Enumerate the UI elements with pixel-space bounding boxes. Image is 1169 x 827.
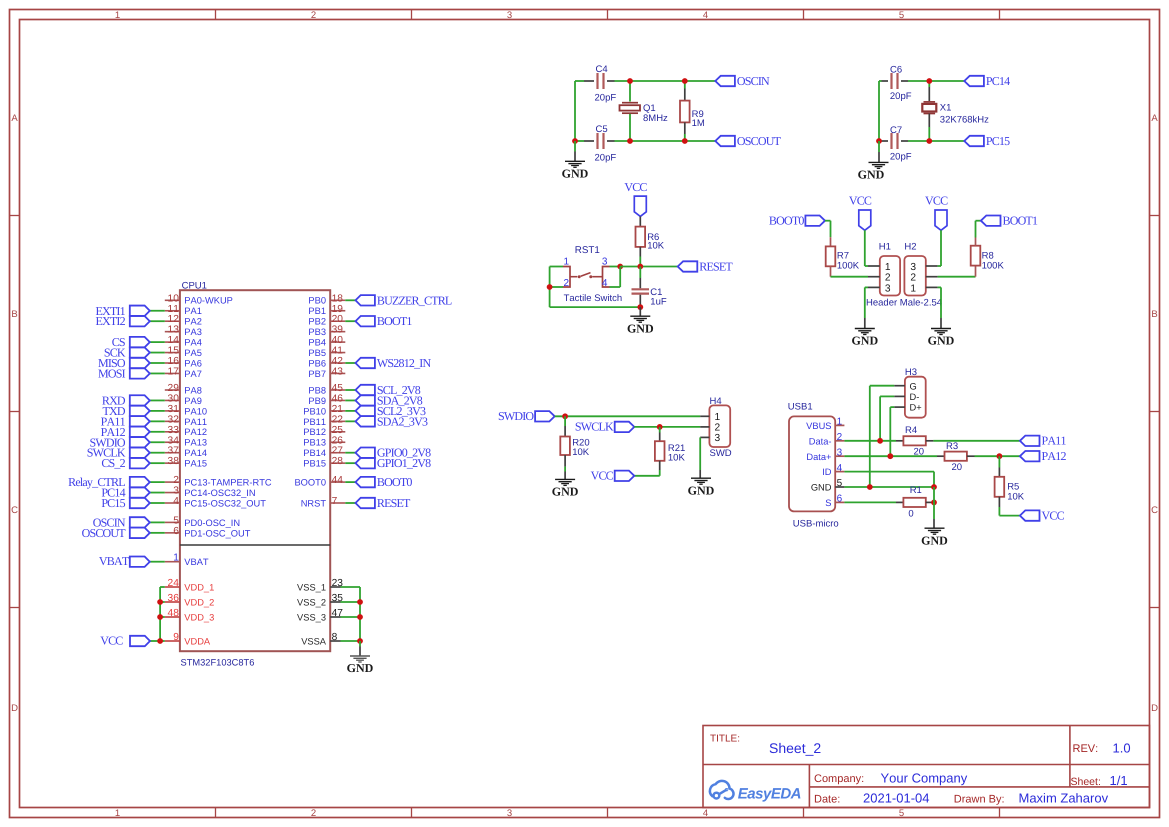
svg-text:GPIO1_2V8: GPIO1_2V8 [377,456,431,470]
resistor R4 [903,436,925,445]
svg-text:4: 4 [703,808,708,819]
pin 8 VSSA [330,640,340,642]
pin 13 PA3 [165,331,180,333]
svg-text:GND: GND [688,483,715,497]
pin lead C1 top [639,278,641,288]
net flag BOOT1 [356,316,375,326]
svg-text:20pF: 20pF [595,93,617,104]
pin 42 PB6 [330,362,345,364]
svg-text:BOOT0: BOOT0 [377,475,412,489]
svg-text:GND: GND [347,661,374,675]
svg-text:12: 12 [168,314,180,325]
svg-text:20pF: 20pF [595,153,617,164]
svg-text:PC15: PC15 [101,496,125,510]
pin 14 PA4 [165,341,180,343]
wire pin2 [550,286,563,288]
svg-text:PA2: PA2 [184,317,202,327]
junction [157,614,163,620]
pin lead R21 top [659,433,661,442]
wire [150,462,165,464]
svg-text:10: 10 [168,293,180,304]
wire [345,389,355,391]
svg-text:VBAT: VBAT [184,557,209,567]
wire bottom [550,306,641,308]
net flag WS2812_IN [356,358,375,368]
wire [345,462,355,464]
svg-text:PC14-OSC32_IN: PC14-OSC32_IN [184,488,255,498]
svg-text:15: 15 [168,346,180,357]
net flag SWCLK [130,448,150,458]
net flag RXD [130,395,150,405]
wire down to GND [933,487,935,519]
pin lead C7 right [901,140,908,142]
switch left bracket [563,267,570,288]
crystal X1 [924,101,936,103]
wire [575,80,584,82]
svg-text:2: 2 [885,273,891,284]
ground stem [940,318,942,328]
svg-text:C4: C4 [596,64,608,75]
pin 18 PB0 [330,299,345,301]
wire to GND [878,141,880,152]
wire R21 to VCC [659,470,661,476]
svg-text:CS_2: CS_2 [101,456,125,470]
svg-text:3: 3 [507,10,512,21]
wire [830,221,832,238]
svg-text:44: 44 [332,475,344,486]
switch contact right [592,276,602,278]
svg-text:OSCOUT: OSCOUT [82,526,127,540]
pin 33 PA12 [165,431,180,433]
pin 5 PD0-OSC_IN [165,521,180,523]
pin lead C6 right [901,80,908,82]
svg-text:R3: R3 [946,441,958,452]
svg-text:2: 2 [910,273,916,284]
net flag PA12 [130,427,150,437]
svg-text:Sheet_2: Sheet_2 [769,740,821,756]
net flag CS [130,337,150,347]
svg-text:GND: GND [627,321,654,335]
net flag SDA_2V8 [356,395,375,405]
svg-text:NRST: NRST [301,498,327,508]
svg-text:VCC: VCC [624,180,647,194]
ground stem [864,318,866,328]
svg-text:BOOT0: BOOT0 [294,478,326,488]
H4 pin1 lead [700,415,709,417]
svg-text:Maxim Zaharov: Maxim Zaharov [1019,791,1109,806]
H2 pin2 lead [926,276,938,278]
pin 16 PA6 [165,362,180,364]
svg-text:26: 26 [332,435,344,446]
ground stem [359,647,361,656]
svg-text:39: 39 [332,325,344,336]
svg-text:5: 5 [899,808,904,819]
net flag VBAT [130,557,150,567]
USB pin lead [835,501,844,503]
svg-text:1: 1 [910,283,916,294]
junction [562,413,568,419]
svg-text:VSS_2: VSS_2 [297,597,326,607]
pin 48 VDD_3 [165,616,180,618]
svg-text:11: 11 [168,304,180,315]
wire [341,640,361,642]
svg-text:41: 41 [332,346,344,357]
junction [887,453,893,459]
wire [615,140,716,142]
net flag Relay_CTRL [130,477,150,487]
H2 pin3 lead [926,265,938,267]
svg-text:30: 30 [168,393,180,404]
svg-text:PB13: PB13 [303,438,326,448]
svg-text:Drawn By:: Drawn By: [954,793,1005,805]
wire [150,452,165,454]
H1 pin3 lead [868,286,880,288]
wire down to GND [864,287,866,318]
ground stem [639,307,641,316]
pin lead R3 left [937,455,945,457]
pin lead C5 left [584,140,594,142]
svg-text:1: 1 [715,412,721,423]
wire ID down [933,472,935,487]
wire H2 pin2 to R8 [938,276,976,278]
svg-text:G: G [910,381,917,391]
svg-text:1uF: 1uF [650,297,667,308]
svg-text:VSS_1: VSS_1 [297,582,326,592]
wire [150,561,165,563]
svg-text:PA14: PA14 [184,448,207,458]
svg-text:PB12: PB12 [303,427,326,437]
wire down to GND [940,287,942,318]
wire SWCLK to H4 pin2 [634,426,700,428]
svg-text:A: A [1151,113,1158,124]
pin 23 VSS_1 [330,586,340,588]
power flag VCC [935,210,947,230]
ground stem [933,519,935,528]
wire [159,587,161,641]
resistor R5 [995,477,1005,497]
wire node to C1 [639,267,641,279]
pin lead R7 top [830,237,832,246]
junction [572,138,578,144]
wire R4 to PA11 [933,440,1020,442]
svg-text:2: 2 [564,278,570,289]
svg-text:TITLE:: TITLE: [710,734,740,745]
pin lead R20 bottom [564,455,566,467]
svg-text:GND: GND [921,533,948,547]
switch right bracket [603,267,610,288]
svg-text:19: 19 [332,304,344,315]
svg-text:MOSI: MOSI [98,366,126,380]
net flag SDA2_3V3 [356,416,375,426]
pin lead C5 right [607,140,615,142]
svg-text:PB14: PB14 [303,448,326,458]
wire ID [844,471,934,473]
ground stem [574,152,576,162]
junction [637,304,643,310]
wire R5 down [998,507,1000,516]
capacitor plates [890,133,892,149]
net flag EXTI2 [130,316,150,326]
resistor R1 [903,498,925,507]
wire [150,372,165,374]
wire [908,140,964,142]
svg-text:D: D [1151,703,1158,714]
wire [999,515,1020,517]
wire H3 D- [880,395,894,397]
svg-text:3: 3 [507,808,512,819]
resistor R9 [680,101,690,123]
pin 2 PC13-TAMPER-RTC [165,481,180,483]
pin 6 PD1-OSC_OUT [165,532,180,534]
svg-text:D+: D+ [910,403,922,413]
svg-text:3: 3 [885,283,891,294]
wire [345,481,355,483]
resistor R20 [560,437,570,456]
svg-text:PD1-OSC_OUT: PD1-OSC_OUT [184,528,250,538]
junction [157,638,163,644]
wire R3 to PA12 [975,455,1020,457]
svg-text:R4: R4 [905,425,917,436]
svg-text:GND: GND [928,334,955,348]
pin 44 BOOT0 [330,481,345,483]
pin lead C7 left [882,140,889,142]
wire SWDIO to H4 pin1 [555,415,701,417]
svg-text:42: 42 [332,356,344,367]
pin 34 PA13 [165,441,180,443]
wire from Q1 [629,114,631,141]
junction [617,264,623,270]
wire [160,616,165,618]
IC CPU1 body [180,290,330,651]
net flag PA11 [130,416,150,426]
net flag OSCOUT [130,528,150,538]
wire [341,601,361,603]
svg-text:OSCIN: OSCIN [737,74,770,88]
junction [997,453,1003,459]
wire [345,320,355,322]
svg-text:4: 4 [703,10,708,21]
net flag BOOT1 [981,216,1001,226]
svg-text:Data-: Data- [809,436,832,446]
power flag VCC [634,196,646,216]
svg-text:PC14: PC14 [986,74,1010,88]
pin lead R1 right [926,501,934,503]
wire [150,352,165,354]
svg-text:VBUS: VBUS [806,421,831,431]
pin lead R20 top [564,426,566,437]
pin 43 PB7 [330,372,345,374]
crystal Q1 [622,102,638,104]
title block vline logo [808,765,810,808]
wire H4 pin3 to GND [699,437,701,470]
svg-text:ID: ID [822,467,832,477]
svg-text:PC15: PC15 [986,134,1010,148]
pin lead R5 top [998,468,1000,477]
svg-text:VDD_1: VDD_1 [184,582,214,592]
svg-text:REV:: REV: [1073,743,1099,755]
wire [150,431,165,433]
ground stem [699,470,701,478]
H3 pin D+ lead [894,406,905,408]
USB pin lead [835,455,844,457]
pin 9 VDDA [165,640,180,642]
resistor R21 [655,441,665,461]
pin 11 PA1 [165,310,180,312]
svg-text:C: C [1151,505,1158,516]
resistor R8 [971,246,981,266]
junction [157,599,163,605]
wire [150,492,165,494]
H3 pin D- lead [894,395,905,397]
net flag TXD [130,406,150,416]
net flag PA11 [1020,436,1040,446]
pin 39 PB3 [330,331,345,333]
svg-text:PA3: PA3 [184,327,202,337]
net flag EXTI1 [130,306,150,316]
svg-text:VDD_2: VDD_2 [184,597,214,607]
svg-text:PA11: PA11 [184,417,207,427]
wire [150,441,165,443]
net flag PC15 [964,136,984,146]
svg-text:PB8: PB8 [308,385,326,395]
svg-text:37: 37 [168,446,180,457]
svg-text:PB9: PB9 [308,396,326,406]
svg-text:13: 13 [168,325,180,336]
svg-text:32: 32 [168,414,180,425]
wire [976,220,981,222]
pin 27 PB14 [330,452,345,454]
svg-text:40: 40 [332,335,344,346]
net flag SWDIO [130,437,150,447]
wire from R9 [684,134,686,141]
junction [867,484,873,490]
pin 41 PB5 [330,352,345,354]
pin 47 VSS_3 [330,616,340,618]
svg-text:14: 14 [168,335,180,346]
net flag GPIO1_2V8 [356,458,375,468]
net flag SCK [130,347,150,357]
svg-text:20: 20 [952,462,963,473]
svg-text:PA9: PA9 [184,396,202,406]
pin lead R7 bottom [830,266,832,276]
wire [150,420,165,422]
wire S [844,501,896,503]
pin 35 VSS_2 [330,601,340,603]
svg-text:0: 0 [908,508,913,519]
svg-text:2021-01-04: 2021-01-04 [863,791,930,806]
connector USB1 [789,416,835,511]
svg-text:EasyEDA: EasyEDA [738,785,801,802]
junction [682,138,688,144]
svg-text:10K: 10K [1007,491,1025,502]
svg-text:Company:: Company: [814,773,864,785]
pin 38 PA15 [165,462,180,464]
wire elbow [619,267,621,288]
H3 pin G lead [894,385,905,387]
svg-text:PB3: PB3 [308,327,326,337]
title block hline 1 [703,764,1150,766]
power flag VCC [859,210,871,230]
wire left down [549,267,551,308]
wire H2 pin1 [938,286,941,288]
pin lead R4 left [896,440,903,442]
wire [150,481,165,483]
junction [931,500,937,506]
capacitor plates [596,133,598,149]
net flag OSCOUT [715,136,735,146]
pin 31 PA10 [165,410,180,412]
wire [341,586,361,588]
svg-text:29: 29 [168,383,180,394]
pin lead R6 bottom [639,247,641,257]
wire to Q1 [629,81,631,102]
wire pin4 [610,286,621,288]
svg-text:PB15: PB15 [303,459,326,469]
svg-text:STM32F103C8T6: STM32F103C8T6 [181,657,255,667]
wire R6 to node [639,257,641,267]
svg-text:X1: X1 [940,103,952,114]
ground stem [564,472,566,480]
svg-text:A: A [11,113,18,124]
svg-text:H2: H2 [904,241,916,252]
svg-text:27: 27 [332,446,344,457]
svg-text:BOOT1: BOOT1 [1003,214,1038,228]
wire [345,410,355,412]
svg-text:25: 25 [332,425,344,436]
net flag SCL2_3V3 [356,406,375,416]
svg-text:4: 4 [173,496,179,507]
svg-text:PA15: PA15 [184,459,207,469]
net flag BUZZER_CTRL [356,295,375,305]
svg-text:5: 5 [899,10,904,21]
ground [555,478,575,480]
wire [615,80,716,82]
svg-text:RESET: RESET [377,496,411,510]
net flag GPIO0_2V8 [356,448,375,458]
capacitor C1 [632,288,650,290]
net flag OSCIN [130,517,150,527]
svg-text:PB11: PB11 [303,417,326,427]
svg-text:H1: H1 [879,241,891,252]
svg-text:100K: 100K [837,260,860,271]
wire to GND [574,141,576,152]
separator line [180,544,330,546]
svg-text:PB4: PB4 [308,338,326,348]
pin lead C4 left [584,80,594,82]
ground [350,655,370,657]
pin lead R8 bottom [975,266,977,277]
wire [160,601,165,603]
svg-text:8: 8 [332,632,338,643]
wire to R9 [684,81,686,89]
wire [150,532,165,534]
net flag BOOT0 [356,477,375,487]
svg-text:PB2: PB2 [308,317,326,327]
pin lead R9 bottom [684,122,686,134]
pin lead X1 top [928,87,930,101]
svg-text:PA6: PA6 [184,358,202,368]
svg-text:1: 1 [115,808,120,819]
wire [879,80,882,82]
pin lead R8 top [975,238,977,246]
pin 4 PC15-OSC32_OUT [165,502,180,504]
svg-text:EXTI2: EXTI2 [95,314,125,328]
svg-text:20pF: 20pF [890,91,912,102]
svg-text:16: 16 [168,356,180,367]
svg-text:3: 3 [910,262,916,273]
svg-text:18: 18 [332,293,344,304]
pin 29 PA8 [165,389,180,391]
